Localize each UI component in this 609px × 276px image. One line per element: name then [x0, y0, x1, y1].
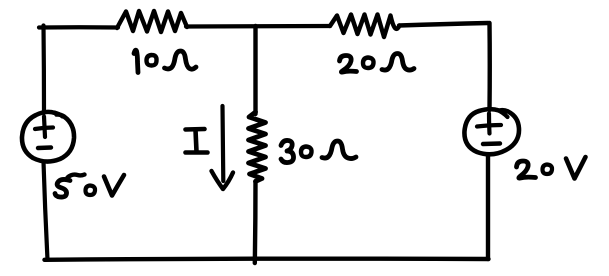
label 20ohm : omega: [382, 54, 414, 71]
wire left vertical lower: [44, 162, 48, 260]
wire middle vertical lower: [253, 181, 258, 263]
label 20ohm : digit 2: [340, 56, 357, 73]
label 20V : digit 2: [517, 161, 536, 178]
wire top-middle: [186, 24, 330, 29]
resistor R2: [330, 15, 400, 38]
label I: [186, 127, 205, 132]
V2 minus sign: [483, 141, 500, 146]
wire bottom: [45, 259, 489, 260]
voltage source V2: [464, 109, 519, 154]
V2 plus sign: [477, 125, 501, 127]
wire middle vertical upper: [253, 26, 257, 114]
wire right vertical lower: [486, 155, 490, 260]
V1 minus sign: [38, 145, 51, 150]
wire top-left horizontal: [39, 25, 118, 29]
resistor R3: [249, 112, 266, 182]
wire top-right horizontal: [399, 23, 488, 26]
wire left vertical upper: [41, 26, 46, 114]
current arrow: [220, 106, 225, 181]
label 50V : letter V: [104, 175, 124, 196]
label 50V : digit 5: [55, 179, 70, 197]
label 30ohm : omega: [322, 141, 356, 159]
V1 plus sign: [35, 128, 53, 130]
label 20V : digit 0: [543, 165, 553, 175]
label 10ohm : omega: [165, 51, 197, 69]
resistor R1: [117, 11, 187, 32]
voltage source V1: [22, 112, 74, 162]
label 20V : letter V: [566, 157, 586, 179]
label 30ohm : digit 0: [301, 147, 312, 158]
wire right vertical upper: [487, 23, 492, 110]
label 10ohm : digit 0: [147, 55, 157, 66]
label 50V : digit 0: [86, 186, 96, 196]
label 20ohm : digit 0: [363, 58, 374, 69]
label 10ohm : digit 1: [134, 50, 138, 72]
label 30ohm : digit 3: [281, 140, 294, 162]
